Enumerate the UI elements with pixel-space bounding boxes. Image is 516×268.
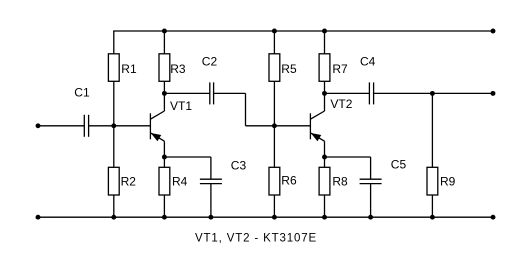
svg-text:C3: C3 — [231, 158, 247, 172]
svg-text:VT2: VT2 — [330, 97, 352, 111]
wire C4 to output — [374, 92, 493, 94]
node VT1 emitter — [162, 155, 167, 160]
svg-text:R9: R9 — [440, 174, 456, 188]
wire R4 bottom lead — [163, 195, 165, 217]
caption VT1, VT2 - KT3107E — [195, 232, 317, 244]
node bottom rail / R8 — [322, 215, 327, 220]
wire input to C1 — [38, 125, 84, 127]
resistor R2 — [108, 167, 136, 195]
resistor R4 — [159, 167, 188, 195]
wire bottom ground rail — [38, 216, 493, 218]
node top rail / R3 junction — [162, 29, 167, 34]
node A (VT1 base node) — [111, 123, 116, 128]
svg-text:R4: R4 — [172, 174, 188, 188]
resistor R9 — [427, 167, 456, 195]
node VT2 collector — [322, 91, 327, 96]
wire VT2 collector to C4 — [325, 92, 370, 94]
node bottom rail / C3 — [208, 215, 213, 220]
node output / R9 junction — [430, 91, 435, 96]
capacitor C4 — [360, 55, 376, 105]
wire R6 top lead — [273, 126, 275, 168]
node bottom rail / R6 — [272, 215, 277, 220]
wire R8 bottom lead — [324, 195, 326, 217]
wire R1 top lead — [113, 31, 115, 54]
svg-text:R5: R5 — [281, 62, 297, 76]
capacitor C1 — [74, 86, 90, 137]
wire VT2 base — [274, 125, 310, 127]
resistor R3 — [159, 54, 186, 82]
wire R1 bottom lead — [113, 81, 115, 126]
svg-text:R1: R1 — [121, 62, 137, 76]
wire C1 to node A — [89, 125, 114, 127]
svg-text:R6: R6 — [281, 174, 297, 188]
node bottom rail / R9 — [430, 215, 435, 220]
wire R5 bottom lead — [273, 81, 275, 126]
svg-text:C2: C2 — [202, 55, 218, 69]
svg-text:VT1: VT1 — [170, 99, 192, 113]
terminal input — [36, 123, 41, 128]
capacitor C3 — [200, 158, 247, 183]
svg-text:R3: R3 — [170, 62, 186, 76]
node VT2 emitter — [322, 155, 327, 160]
wire R3 top lead — [163, 31, 165, 54]
node top rail / R5 junction — [272, 29, 277, 34]
wire R9 top lead — [431, 93, 433, 167]
node bottom rail / C5 — [368, 215, 373, 220]
svg-text:C4: C4 — [360, 55, 376, 69]
terminal bottom right — [491, 215, 496, 220]
terminal output right — [491, 91, 496, 96]
node bottom rail / R2 — [111, 215, 116, 220]
capacitor C2 — [202, 55, 218, 105]
terminal bottom left — [36, 215, 41, 220]
resistor R5 — [269, 54, 297, 82]
wire R2 top lead — [113, 126, 115, 168]
capacitor C5 — [360, 157, 407, 183]
svg-text:R7: R7 — [332, 62, 348, 76]
resistor R8 — [319, 167, 348, 195]
wire C2 to node B — [214, 93, 275, 125]
svg-text:C1: C1 — [74, 86, 90, 100]
node B (VT2 base node) — [272, 123, 277, 128]
wire VT1 base — [114, 125, 151, 127]
svg-text:VT1, VT2 - KT3107E: VT1, VT2 - KT3107E — [195, 232, 317, 244]
wire R7 bottom lead — [324, 81, 326, 93]
resistor R1 — [108, 54, 137, 82]
node VT1 collector — [162, 91, 167, 96]
wire R8 top lead — [324, 157, 326, 167]
wire R2 bottom lead — [113, 195, 115, 217]
svg-text:C5: C5 — [391, 157, 407, 171]
svg-text:R2: R2 — [121, 174, 137, 188]
resistor R7 — [319, 54, 348, 82]
wire top supply rail — [113, 30, 493, 32]
wire C3 bottom lead — [210, 184, 212, 218]
transistor VT1 (PNP) — [150, 93, 192, 157]
wire C5 bottom lead — [370, 184, 372, 218]
node top rail / R7 junction — [322, 29, 327, 34]
svg-text:R8: R8 — [332, 174, 348, 188]
wire R5 top lead — [273, 31, 275, 54]
wire R7 top lead — [324, 31, 326, 54]
wire VT2 emitter to C5 — [325, 157, 371, 179]
transistor VT2 (PNP) — [310, 93, 352, 157]
resistor R6 — [269, 167, 297, 195]
node bottom rail / R4 — [162, 215, 167, 220]
terminal top right supply — [491, 29, 496, 34]
wire VT1 emitter to C3 — [164, 157, 211, 179]
wire VT1 collector to C2 — [164, 92, 209, 94]
wire R6 bottom lead — [273, 195, 275, 217]
wire R3 bottom lead — [163, 81, 165, 93]
wire R9 bottom lead — [431, 195, 433, 217]
wire R4 top lead — [163, 157, 165, 167]
